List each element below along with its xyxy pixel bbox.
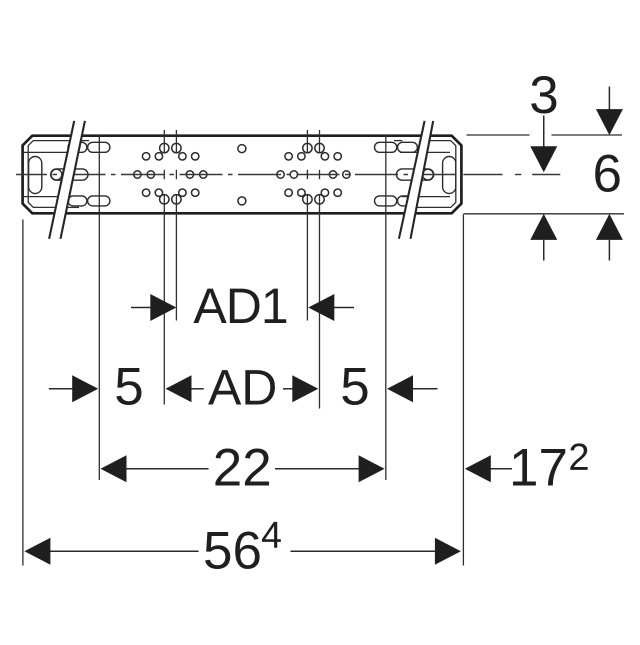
vertical slot left <box>29 157 42 194</box>
arrow at L4 <box>292 375 318 402</box>
vertical slot right <box>443 157 456 194</box>
extension line L1 (x=164.3) <box>163 130 165 405</box>
label 17 superscript 2 <box>570 443 587 470</box>
bottom edge extension to right <box>463 213 624 215</box>
dimension 22 row <box>126 468 359 470</box>
svg-text:5: 5 <box>114 357 143 416</box>
break line left 1 <box>49 121 74 239</box>
middle keyhole slot right <box>396 169 433 180</box>
svg-text:5: 5 <box>340 357 369 416</box>
svg-text:22: 22 <box>213 439 272 498</box>
break band left <box>49 121 85 239</box>
right overall extension line (x=463.4) <box>462 215 464 566</box>
mounting plate outer outline <box>23 136 462 214</box>
bottom slots left end <box>68 196 87 206</box>
top edge extension to right <box>467 134 530 136</box>
break line right 2 <box>411 121 434 239</box>
bottom slots right end <box>375 196 397 206</box>
extension line L4 (x=319.5) <box>319 130 321 409</box>
horizontal centerline (dash-dot) <box>16 174 560 176</box>
17 arrow <box>465 455 491 482</box>
center holes <box>238 145 246 153</box>
break band right <box>399 121 433 239</box>
22 right arrow <box>359 455 385 482</box>
dimension 6 leader and arrows <box>608 87 610 111</box>
dimension 3 leader and arrows <box>543 116 545 148</box>
svg-text:6: 6 <box>593 145 622 204</box>
AD1 right arrow <box>308 294 334 321</box>
middle keyhole slot left <box>51 169 88 180</box>
inner contour left end <box>24 141 89 208</box>
svg-text:3: 3 <box>529 66 558 125</box>
extension line L2 (x=176.4) <box>175 130 177 321</box>
arrow at L1 <box>166 375 192 402</box>
dimension 56^4 row <box>50 550 436 552</box>
svg-text:AD: AD <box>208 359 277 415</box>
top slots right end <box>375 142 397 152</box>
AD1 left arrow <box>150 294 176 321</box>
dimension AD row with 5 5 <box>49 388 438 390</box>
svg-text:17: 17 <box>509 439 568 498</box>
label 56 superscript 4 <box>262 522 281 548</box>
56 right arrow <box>435 538 461 565</box>
inner contour right end <box>394 141 456 208</box>
extension line L0 (x=99.3) <box>98 135 100 480</box>
arrow at L5 <box>387 375 413 402</box>
22 left arrow <box>101 455 127 482</box>
extension line L3 (x=307.4) <box>306 130 308 321</box>
svg-text:56: 56 <box>203 521 262 580</box>
left hole cluster <box>134 143 207 204</box>
dimension 17^2 <box>490 468 512 470</box>
arrow at L0 <box>72 375 98 402</box>
right hole cluster <box>277 143 350 204</box>
top slots left end <box>68 142 87 152</box>
svg-text:AD1: AD1 <box>193 278 287 334</box>
break line left 2 <box>61 121 85 239</box>
56 left arrow <box>24 538 50 565</box>
break line right 1 <box>399 121 425 239</box>
dimension AD1 row <box>131 307 354 309</box>
extension line L5 (x=385.8) <box>385 135 387 480</box>
left overall extension line (x=22.9) <box>22 220 24 566</box>
